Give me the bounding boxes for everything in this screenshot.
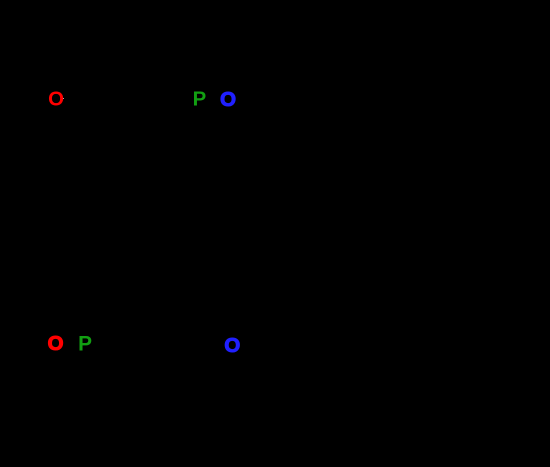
biaryl core ring bbox=[80, 190, 160, 290]
bond O-P bottom bbox=[64, 342, 77, 344]
wire: top O to ethyl bbox=[238, 82, 286, 96]
wire: methyl to top methoxy O bbox=[30, 100, 48, 112]
svg-text:O: O bbox=[48, 333, 64, 355]
svg-text:O: O bbox=[48, 88, 64, 110]
svg-text:P: P bbox=[193, 89, 207, 111]
wire: ring to P top bbox=[148, 100, 190, 114]
svg-text:O: O bbox=[224, 335, 240, 357]
svg-text:P: P bbox=[78, 333, 92, 356]
benzene ring lower bbox=[130, 364, 202, 428]
wire: bottom methoxy methyl bbox=[30, 346, 46, 356]
wire: lower ring to bottom O bbox=[202, 352, 222, 380]
benzene ring upper-left bbox=[92, 98, 148, 162]
antialias artifact dot right of O1 bbox=[63, 98, 64, 99]
svg-text:O: O bbox=[220, 89, 236, 111]
wire: bottom P to lower ring bbox=[94, 352, 130, 380]
wire: top methoxy O to aryl ring bbox=[64, 98, 92, 114]
wire: core to bottom P bbox=[86, 290, 120, 334]
wire: P top down to biaryl core bbox=[160, 108, 199, 220]
wire: bottom O methyl bbox=[242, 348, 268, 362]
bond P-O top bbox=[208, 97, 218, 99]
